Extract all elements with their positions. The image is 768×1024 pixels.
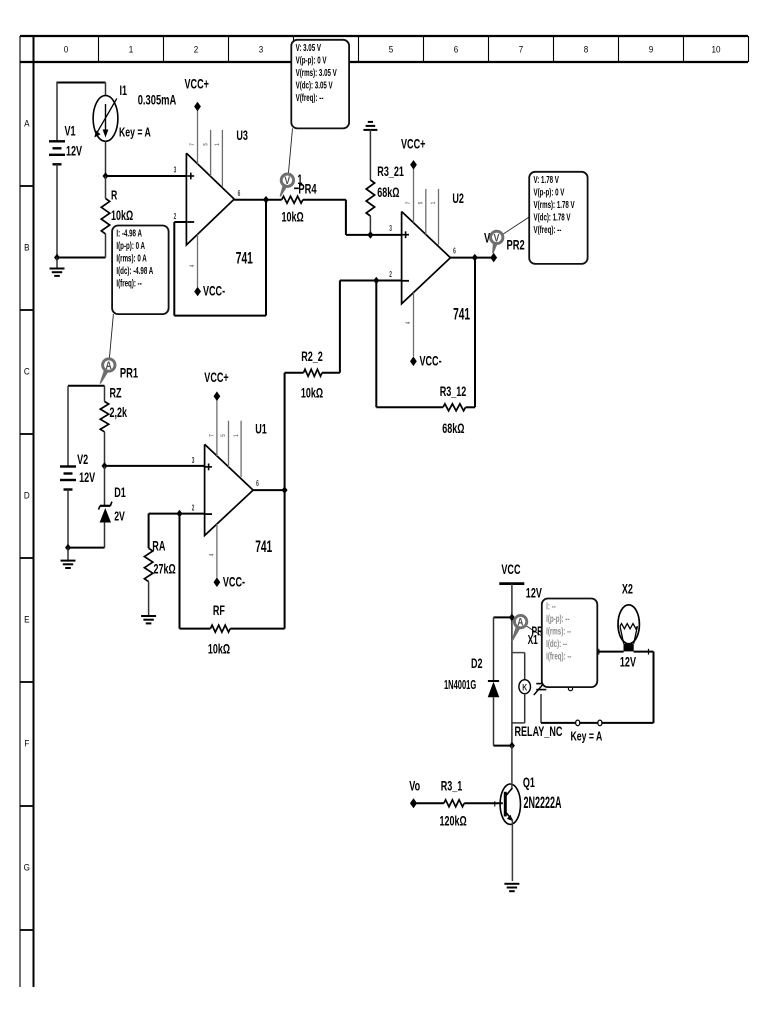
power VCC- U1 bbox=[214, 577, 221, 587]
ground below V2 bbox=[67, 548, 69, 561]
resistor 10k after U3 (PR4) bbox=[282, 196, 303, 203]
wire to U3 + input bbox=[106, 175, 187, 177]
svg-text:10kΩ: 10kΩ bbox=[301, 387, 323, 401]
svg-text:7: 7 bbox=[406, 202, 413, 205]
resistor RA bbox=[148, 514, 150, 549]
svg-text:2V: 2V bbox=[114, 510, 125, 524]
svg-text:R3_1: R3_1 bbox=[441, 780, 463, 794]
resistor R3_1 bbox=[414, 802, 444, 804]
wire VCC down bbox=[511, 584, 513, 746]
resistor RF bbox=[180, 628, 211, 630]
junction node I1/R bbox=[103, 172, 109, 180]
svg-text:68kΩ: 68kΩ bbox=[377, 186, 399, 200]
svg-text:V: 1.78 V: V: 1.78 V bbox=[534, 173, 560, 185]
svg-text:Key = A: Key = A bbox=[119, 126, 151, 140]
node Vo bbox=[410, 798, 417, 808]
svg-text:8: 8 bbox=[584, 44, 589, 55]
junction RZ/D1/U1+ bbox=[102, 462, 108, 470]
transistor Q1 2N2222A bbox=[500, 784, 520, 824]
svg-text:1: 1 bbox=[214, 143, 221, 146]
svg-text:D1: D1 bbox=[114, 486, 126, 500]
svg-text:I1: I1 bbox=[120, 84, 128, 98]
svg-text:2: 2 bbox=[174, 213, 177, 221]
ground below V1 bbox=[56, 258, 58, 269]
svg-text:1N4001G: 1N4001G bbox=[444, 678, 476, 693]
svg-text:X2: X2 bbox=[622, 583, 633, 597]
svg-text:5: 5 bbox=[389, 44, 394, 55]
op-amp U1 741 bbox=[205, 444, 254, 535]
wire V1 bottom bbox=[56, 164, 58, 257]
U1 - input wire bbox=[149, 513, 205, 515]
power VCC+ U1 bbox=[214, 391, 221, 401]
svg-text:7: 7 bbox=[209, 434, 216, 437]
svg-text:A: A bbox=[106, 360, 112, 372]
svg-text:PR4: PR4 bbox=[298, 181, 317, 197]
junction U2 - input bbox=[373, 277, 379, 285]
svg-text:10kΩ: 10kΩ bbox=[111, 209, 133, 223]
probe PR4 bbox=[280, 183, 288, 196]
svg-text:I(p-p): 0 A: I(p-p): 0 A bbox=[116, 239, 145, 251]
svg-text:I(dc): -4.98 A: I(dc): -4.98 A bbox=[116, 264, 153, 276]
U1 pin lines top bbox=[216, 401, 218, 457]
wire D2 bottom bbox=[494, 745, 512, 747]
diode D2 1N4001G bbox=[494, 616, 512, 618]
junction V2 bottom bbox=[65, 544, 71, 552]
U3 output wire bbox=[234, 199, 282, 201]
svg-text:I: -4.98 A: I: -4.98 A bbox=[116, 227, 142, 239]
svg-text:2,2k: 2,2k bbox=[110, 406, 128, 420]
svg-text:V: 3.05 V: V: 3.05 V bbox=[296, 41, 322, 53]
ground below Q1 bbox=[504, 883, 519, 885]
svg-text:68kΩ: 68kΩ bbox=[442, 422, 464, 436]
svg-text:2N2222A: 2N2222A bbox=[524, 793, 562, 812]
svg-text:R3_12: R3_12 bbox=[440, 385, 467, 399]
svg-text:1: 1 bbox=[129, 44, 134, 55]
power VCC- U2 bbox=[410, 357, 417, 367]
resistor R bbox=[105, 176, 107, 198]
svg-text:6: 6 bbox=[238, 190, 241, 198]
op-amp U2 741 bbox=[402, 212, 451, 304]
svg-text:5: 5 bbox=[203, 143, 210, 146]
ground above R3_21 (inverted) bbox=[368, 121, 373, 123]
svg-text:V(dc): 1.78 V: V(dc): 1.78 V bbox=[534, 211, 571, 223]
leader line PR1 bbox=[109, 314, 113, 359]
probe PR1 bbox=[100, 368, 110, 384]
svg-text:741: 741 bbox=[236, 248, 253, 267]
U3 feedback loop wires bbox=[173, 222, 175, 316]
measurement popup PR1 bbox=[112, 226, 169, 315]
U3 pin lines top bbox=[197, 111, 199, 164]
svg-text:2: 2 bbox=[192, 504, 195, 512]
svg-text:12V: 12V bbox=[66, 145, 82, 159]
U1 pin 4 line bbox=[216, 524, 218, 578]
junction U1 output bbox=[282, 486, 288, 494]
svg-text:R3_21: R3_21 bbox=[377, 165, 404, 179]
svg-text:10kΩ: 10kΩ bbox=[282, 211, 304, 225]
junction U3 output bbox=[263, 196, 269, 204]
U2 output wire bbox=[450, 257, 493, 259]
svg-text:741: 741 bbox=[453, 304, 470, 323]
wire U1 out up to R2_2 bbox=[284, 373, 286, 629]
svg-text:V(p-p): 0 V: V(p-p): 0 V bbox=[534, 186, 565, 198]
svg-text:Vo: Vo bbox=[409, 780, 420, 794]
junction U1 - input bbox=[177, 510, 183, 518]
svg-text:V: V bbox=[494, 232, 500, 244]
svg-text:V1: V1 bbox=[65, 125, 77, 139]
op-amp U3 741 bbox=[186, 153, 234, 245]
resistor R3_12 bbox=[375, 281, 377, 408]
relay X1 coil bbox=[512, 652, 525, 654]
leader line PR2 bbox=[503, 217, 530, 235]
svg-text:RZ: RZ bbox=[110, 387, 122, 401]
measurement popup PR4 bbox=[291, 40, 349, 129]
svg-text:7: 7 bbox=[190, 143, 197, 146]
wire to U2 + input bbox=[345, 200, 347, 235]
svg-text:U3: U3 bbox=[236, 129, 248, 143]
junction collector node bbox=[509, 742, 515, 750]
junction R3_21 / U2 + bbox=[367, 231, 373, 239]
svg-text:PR2: PR2 bbox=[507, 237, 526, 253]
svg-text:VCC-: VCC- bbox=[223, 576, 245, 590]
svg-text:6: 6 bbox=[256, 480, 259, 488]
svg-text:5: 5 bbox=[221, 434, 228, 437]
battery V1 bbox=[49, 140, 65, 142]
svg-text:5: 5 bbox=[418, 202, 425, 205]
svg-text:A: A bbox=[24, 118, 29, 129]
svg-text:A: A bbox=[517, 617, 523, 629]
svg-text:0.305mA: 0.305mA bbox=[138, 92, 177, 108]
wire top of RZ bbox=[68, 385, 105, 387]
svg-text:G: G bbox=[24, 862, 30, 873]
svg-text:PR1: PR1 bbox=[120, 365, 139, 381]
svg-text:7: 7 bbox=[519, 44, 524, 55]
svg-text:3: 3 bbox=[259, 44, 264, 55]
svg-text:F: F bbox=[24, 738, 29, 749]
leader line PR4 bbox=[288, 128, 292, 174]
probe A (relay) bbox=[511, 625, 521, 642]
svg-text:I: --: I: -- bbox=[546, 600, 556, 612]
relay armature bbox=[536, 683, 546, 685]
svg-text:V(dc): 3.05 V: V(dc): 3.05 V bbox=[296, 79, 333, 91]
power VCC+ U3 bbox=[194, 102, 201, 112]
wire V2/D1 bottom bbox=[68, 547, 105, 549]
U3 - input wire bbox=[174, 221, 186, 223]
leader line relay probe bbox=[526, 626, 542, 636]
svg-text:6: 6 bbox=[454, 44, 459, 55]
svg-text:V(p-p): 0 V: V(p-p): 0 V bbox=[296, 54, 327, 66]
svg-text:VCC: VCC bbox=[501, 563, 520, 577]
svg-text:3: 3 bbox=[192, 457, 195, 465]
svg-text:RA: RA bbox=[152, 540, 165, 554]
svg-text:I(freq): --: I(freq): -- bbox=[546, 650, 571, 662]
svg-text:12V: 12V bbox=[620, 656, 636, 670]
resistor R3_21 bbox=[369, 130, 371, 180]
svg-text:V2: V2 bbox=[77, 453, 88, 467]
svg-text:D2: D2 bbox=[471, 657, 483, 671]
svg-text:27kΩ: 27kΩ bbox=[154, 563, 176, 577]
svg-text:120kΩ: 120kΩ bbox=[440, 815, 467, 829]
svg-text:VCC-: VCC- bbox=[203, 285, 225, 299]
ground below RA bbox=[141, 615, 156, 617]
svg-text:1: 1 bbox=[431, 202, 438, 205]
power VCC- U3 bbox=[194, 287, 201, 297]
svg-text:U1: U1 bbox=[255, 423, 267, 437]
svg-text:I(rms): --: I(rms): -- bbox=[546, 625, 571, 637]
U2 pin lines top bbox=[413, 169, 415, 223]
svg-text:I(dc): --: I(dc): -- bbox=[546, 637, 567, 649]
svg-text:U2: U2 bbox=[452, 192, 464, 206]
svg-text:V(rms): 3.05 V: V(rms): 3.05 V bbox=[296, 66, 337, 78]
measurement popup relay probe bbox=[542, 599, 598, 688]
svg-text:741: 741 bbox=[255, 536, 272, 555]
svg-text:D: D bbox=[24, 490, 30, 501]
U2 - input wire bbox=[340, 280, 402, 282]
svg-text:VCC+: VCC+ bbox=[185, 78, 210, 92]
svg-text:V(freq): --: V(freq): -- bbox=[296, 91, 324, 103]
svg-text:I(p-p): --: I(p-p): -- bbox=[546, 612, 569, 624]
svg-text:RELAY_NC: RELAY_NC bbox=[515, 725, 563, 739]
lamp X2 bbox=[556, 651, 624, 653]
svg-text:Q1: Q1 bbox=[523, 776, 536, 790]
svg-text:VCC-: VCC- bbox=[420, 355, 442, 369]
battery V2 bbox=[67, 386, 69, 467]
svg-text:3: 3 bbox=[174, 166, 177, 174]
junction VCC/D2 bbox=[509, 614, 515, 622]
U3 pin 4 line bbox=[197, 235, 199, 288]
svg-text:R: R bbox=[111, 189, 117, 203]
svg-text:V: V bbox=[284, 175, 290, 187]
svg-text:X1: X1 bbox=[528, 633, 538, 647]
svg-text:0: 0 bbox=[64, 44, 69, 55]
U1 output wire bbox=[253, 489, 285, 491]
power VCC+ U2 bbox=[410, 160, 417, 170]
svg-text:2: 2 bbox=[194, 44, 199, 55]
svg-text:V(freq): --: V(freq): -- bbox=[534, 223, 562, 235]
svg-text:2: 2 bbox=[389, 271, 392, 279]
wire to U1 + input bbox=[105, 465, 205, 467]
svg-text:R2_2: R2_2 bbox=[301, 350, 323, 364]
svg-text:1: 1 bbox=[233, 434, 240, 437]
svg-text:3: 3 bbox=[389, 225, 392, 233]
resistor R2_2 bbox=[285, 372, 304, 374]
power VCC bar bbox=[499, 582, 524, 585]
svg-text:VCC+: VCC+ bbox=[401, 138, 426, 152]
resistor RZ bbox=[104, 386, 106, 402]
svg-text:K: K bbox=[522, 682, 527, 692]
svg-text:10: 10 bbox=[712, 44, 721, 55]
svg-text:I(freq): --: I(freq): -- bbox=[116, 277, 141, 289]
svg-text:9: 9 bbox=[649, 44, 654, 55]
junction V1 bottom bbox=[54, 254, 60, 262]
junction U2 output bbox=[472, 254, 478, 262]
svg-text:12V: 12V bbox=[79, 471, 95, 485]
svg-text:12V: 12V bbox=[526, 587, 542, 601]
svg-text:E: E bbox=[24, 614, 29, 625]
U1 feedback wires bbox=[179, 514, 181, 629]
svg-text:10kΩ: 10kΩ bbox=[208, 643, 230, 657]
svg-text:RF: RF bbox=[213, 604, 225, 618]
zener diode D1 bbox=[104, 466, 106, 506]
svg-text:I(rms): 0 A: I(rms): 0 A bbox=[116, 252, 146, 264]
svg-text:V(rms): 1.78 V: V(rms): 1.78 V bbox=[534, 198, 575, 210]
svg-text:6: 6 bbox=[453, 248, 456, 256]
svg-text:VCC+: VCC+ bbox=[204, 371, 229, 385]
measurement popup PR2 bbox=[529, 172, 587, 264]
relay NC contacts / switch wire bbox=[541, 722, 576, 724]
current source I1 bbox=[105, 83, 107, 96]
wire V1 top to I1 bbox=[57, 82, 106, 84]
svg-text:B: B bbox=[24, 242, 29, 253]
svg-text:C: C bbox=[24, 366, 30, 377]
U2 pin 4 line bbox=[413, 293, 415, 357]
svg-text:Key = A: Key = A bbox=[571, 730, 603, 744]
